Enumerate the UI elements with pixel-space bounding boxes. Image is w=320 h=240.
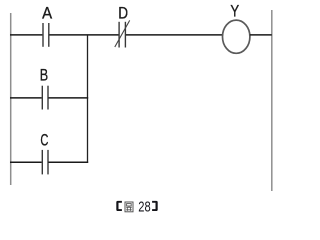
svg-text:28: 28: [138, 198, 150, 215]
svg-text:A: A: [42, 4, 53, 23]
svg-text:B: B: [40, 65, 48, 84]
wire rung3 left rail to contact C: [10, 161, 42, 163]
contact A (NO contact): [43, 23, 49, 47]
contact C (NO contact): [42, 150, 48, 175]
caption figure 28 : CJK glyph (tu, figure) drawn as paths: [125, 202, 133, 212]
wire contact C to branch junction: [49, 161, 89, 163]
contact B (NO contact): [42, 86, 48, 110]
left power rail: [10, 13, 12, 185]
svg-text:C: C: [40, 131, 48, 150]
coil Y: [223, 20, 250, 53]
branch junction vertical wire: [87, 34, 89, 162]
svg-text:Y: Y: [230, 2, 239, 21]
wire contact A to contact D: [49, 34, 118, 36]
wire contact D to coil Y: [126, 34, 223, 36]
caption figure 28 : left lenticular bracket: [116, 201, 122, 211]
contact D (NC contact): [115, 20, 130, 47]
wire rung1 left rail to contact A: [10, 34, 42, 36]
svg-text:D: D: [118, 3, 128, 22]
wire contact B to branch junction: [49, 97, 89, 99]
caption figure 28 : right lenticular bracket: [152, 201, 158, 211]
wire coil Y to right rail: [250, 34, 272, 36]
wire rung2 left rail to contact B: [10, 97, 42, 99]
right power rail: [271, 10, 273, 191]
